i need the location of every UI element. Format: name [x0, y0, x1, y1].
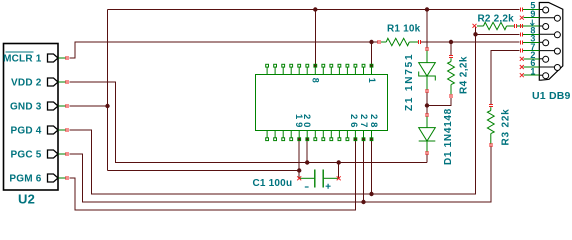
connector U1 DB9 body [539, 3, 563, 81]
zener diode Z1 symbol [426, 50, 428, 63]
zener Z1 bottom pin ticks [425, 90, 429, 92]
wire IC pin19 drop to GND rail and C1 minus [298, 139, 300, 178]
wire Z1 bottom to node [426, 93, 428, 106]
capacitor C1 right lead x-mark [337, 176, 341, 180]
capacitor C1 minus sign [305, 186, 309, 188]
junction Z1-D1-R4 node [425, 103, 429, 107]
U2 pin 5 symbol [48, 150, 59, 158]
IC top pins row [266, 67, 268, 75]
svg-text:8: 8 [311, 78, 321, 83]
svg-text:D1 1N4148: D1 1N4148 [443, 108, 454, 165]
resistor R4 bottom pin ticks [449, 95, 453, 97]
resistor R1 body [381, 41, 386, 43]
junction PGD bus / IC pin28 [369, 192, 373, 196]
U2 pin 1 symbol [48, 54, 59, 62]
resistor R1 left pin ticks [378, 40, 380, 44]
wire D1 bottom to VDD rail [426, 155, 428, 163]
U2 pin 3 symbol [48, 102, 59, 110]
svg-text:MCLR 1: MCLR 1 [3, 54, 42, 65]
svg-text:26: 26 [348, 114, 359, 130]
resistor R4 body [450, 58, 452, 61]
U2 pin 4 symbol [48, 126, 59, 134]
IC bottom pins row [266, 131, 268, 139]
U2 pin 2 symbol [48, 78, 59, 86]
svg-text:PGD 4: PGD 4 [10, 126, 41, 137]
wire PGC net U2 pin5 to bus to R3 bottom [70, 147, 491, 202]
junction GND bus / U2 pin3 [105, 104, 109, 108]
svg-text:28: 28 [368, 114, 379, 130]
svg-text:Z1 1N751: Z1 1N751 [404, 53, 415, 111]
junction GND rail / IC pin19 / C1 minus [297, 168, 301, 172]
resistor R3 bottom pin ticks [489, 144, 493, 146]
wire GND top bus from U2 area to DB9 pin 5 [108, 9, 520, 11]
junction GND bus / Z1 vertical [425, 7, 429, 11]
junction VDD rail / C1 plus [337, 160, 341, 164]
svg-text:1: 1 [530, 66, 535, 76]
junction MCLR line / IC pin1 drop [369, 40, 373, 44]
svg-text:1: 1 [367, 78, 377, 83]
svg-text:27: 27 [358, 114, 369, 130]
wire GND vertical x=107.5 down to lower GND rail and rail right to C1/pin19 [108, 10, 300, 171]
diode D1 top pin ticks [425, 114, 429, 116]
capacitor C1 plus sign [326, 184, 331, 189]
diode D1 symbol [426, 117, 428, 128]
wire R3 top to DB9 pin7 [491, 51, 520, 105]
wire IC pin8 drop from GND bus [314, 10, 316, 66]
U1 DB9 pin stubs [523, 9, 539, 11]
junction PGC bus / IC pin27 [361, 200, 365, 204]
wire VDD rail from U2 pin2 [70, 82, 428, 163]
svg-text:GND 3: GND 3 [10, 102, 42, 113]
svg-text:9: 9 [530, 9, 535, 19]
wire U2 GND pin to junction [70, 105, 108, 107]
resistor R2 right pin ticks [514, 24, 516, 28]
resistor R1 right pin ticks [418, 40, 420, 44]
resistor R2 left pin tick [473, 24, 477, 28]
svg-text:PGM 6: PGM 6 [9, 174, 41, 185]
resistor R3 top pin ticks [489, 105, 493, 107]
wire PGM net U2 pin6 to bus to IC pin26 [70, 139, 356, 210]
wire IC pin1 drop from MCLR line [371, 42, 373, 65]
svg-text:R1 10k: R1 10k [387, 24, 421, 35]
wire PGD net U2 pin4 to bus to DB9 pin8 [70, 34, 520, 194]
junction GND bus / IC pin8 drop [313, 7, 317, 11]
capacitor C1 left lead x-mark [297, 176, 301, 180]
wire IC pin27 drop to PGC bus [363, 139, 365, 202]
wire R4 top to MCLR/R1 line [450, 42, 452, 55]
IC U3 body outline [256, 75, 388, 131]
wire node to D1 top [426, 106, 428, 114]
zener Z1 top pin ticks [425, 48, 429, 50]
junction VDD rail / IC pin20 [305, 160, 309, 164]
resistor R2 body [477, 25, 484, 27]
U1 DB9 internal pin circles [539, 9, 545, 11]
svg-text:20: 20 [301, 114, 312, 130]
svg-text:R3 22k: R3 22k [501, 108, 512, 145]
junction PGD vertical / R2 / DB9 pin8 line [473, 32, 477, 36]
resistor R4 top pin ticks [449, 55, 453, 57]
U2 pin 6 symbol [48, 174, 59, 182]
wire IC pin28 drop to PGD bus [371, 139, 373, 194]
wire MCLR from U2 pin1 up to y=42 across to R1 [70, 42, 378, 58]
wire R2 left drop to PGD vertical [474, 27, 476, 34]
diode D1 bottom pin ticks [425, 152, 429, 154]
svg-text:U1 DB9: U1 DB9 [532, 90, 571, 102]
svg-text:C1 100u: C1 100u [253, 178, 293, 189]
wire C1 plus drop from VDD rail [338, 163, 340, 179]
wire node to R4 bottom [427, 98, 451, 106]
svg-text:R4 2,2k: R4 2,2k [459, 56, 470, 94]
svg-text:VDD 2: VDD 2 [11, 78, 42, 89]
junction MCLR-R1 line / R4 top [449, 40, 453, 44]
U2 pin label MCLR 1 [6, 51, 34, 53]
capacitor C1 symbol [299, 177, 314, 179]
wire Z1 top vertical from GND bus [426, 10, 428, 48]
wire IC pin20 drop to VDD rail [306, 139, 308, 163]
connector U2 body [4, 44, 59, 191]
wire R1 right to DB9 pin3 [421, 41, 520, 43]
svg-text:PGC 5: PGC 5 [10, 150, 41, 161]
U1 DB9 pin end marks [520, 8, 522, 12]
svg-text:R2 2,2k: R2 2,2k [478, 13, 515, 24]
svg-text:U2: U2 [18, 191, 35, 206]
resistor R3 body [490, 107, 492, 110]
